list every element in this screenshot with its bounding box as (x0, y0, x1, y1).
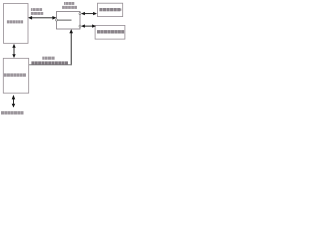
B4 label text (tiny CJK blobs) (97, 30, 124, 33)
B5 label text (tiny CJK blobs) (4, 73, 26, 76)
B1 label text (tiny CJK blobs) (7, 20, 23, 23)
wire E: horizontal control line from B5 (29, 64, 72, 66)
B2 left port (56, 19, 58, 21)
B2 title text line1 (tiny CJK blobs) (64, 2, 74, 5)
terminal box B4 (right second) (95, 25, 125, 39)
terminal box B3 (top right) (98, 3, 123, 16)
B2 right bottom port (79, 25, 81, 27)
wire C: double arrow B2-B4 (81, 24, 96, 27)
wire D/E label line2 (tiny CJK blobs) (31, 61, 68, 64)
B3 label text (tiny CJK blobs) (99, 8, 121, 11)
wire B: double arrow B2-B3 (81, 12, 97, 15)
wire A label line2 (tiny CJK blobs) (31, 12, 43, 15)
B2 internal line (57, 19, 72, 21)
image upload platform box B5 (bottom left) (3, 58, 28, 93)
wire D/E label line1 (tiny CJK blobs) (42, 57, 54, 60)
controller module box B2 (57, 12, 81, 30)
wire F: vertical double arrow B1-B5 (12, 44, 15, 58)
wire A: serial bus double arrow B1-B2 (28, 16, 57, 20)
wire D: vertical control line into B2 bottom (arrow up) (69, 29, 73, 65)
wire G: vertical double arrow below B5 (12, 95, 16, 108)
B2 title text line2 (tiny CJK blobs) (62, 6, 77, 9)
wire A label line1 (tiny CJK blobs) (31, 8, 42, 11)
radio station label text (tiny CJK blobs) (1, 111, 24, 114)
B2 right top port (79, 13, 81, 15)
host computer box B1 (4, 4, 29, 44)
